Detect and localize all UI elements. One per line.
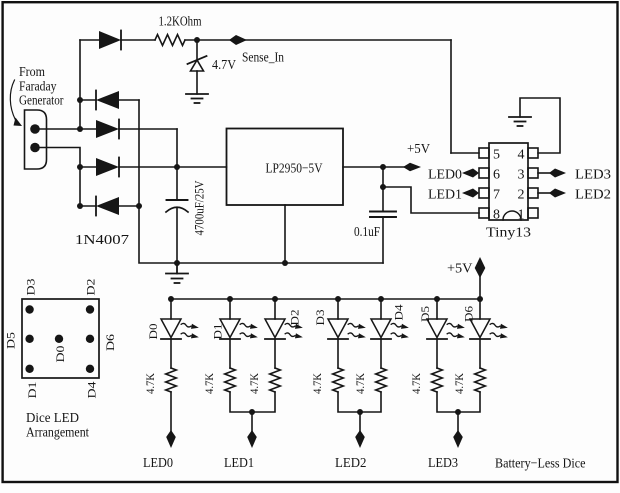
svg-text:5: 5 <box>493 148 500 163</box>
svg-text:D4: D4 <box>392 305 406 321</box>
svg-text:LP2950−5V: LP2950−5V <box>266 162 323 177</box>
diode D_D 1N4007 (row D, pointing left) <box>80 197 139 216</box>
svg-text:LED3: LED3 <box>575 168 611 183</box>
wire : row B cathode drop to input node <box>176 129 178 167</box>
LED dot mid-left (D5) <box>25 335 33 343</box>
resistor R_D1 4.7K <box>225 368 236 392</box>
LED D1 <box>220 319 258 340</box>
svg-text:D1: D1 <box>25 382 39 399</box>
svg-text:4.7K: 4.7K <box>204 372 216 394</box>
svg-text:D1: D1 <box>211 324 225 340</box>
svg-text:8: 8 <box>493 208 500 223</box>
wire : LED1 pair join <box>230 392 275 412</box>
svg-text:4700uF/25V: 4700uF/25V <box>192 180 207 236</box>
wire : LED2 pair join <box>338 392 381 412</box>
svg-text:D0: D0 <box>146 324 160 340</box>
svg-text:2: 2 <box>518 188 525 203</box>
arrow : curved pointer to connector <box>10 80 22 126</box>
LED dot bottom-left (D1) <box>25 365 33 373</box>
svg-text:+5V: +5V <box>407 142 430 157</box>
diode D_A 1N4007 (row A, pointing left) <box>80 91 139 110</box>
wire : connector pin1 to bridge node (row B) <box>38 128 96 130</box>
wire : D5 cathode to resistor <box>436 339 438 368</box>
svg-text:4.7K: 4.7K <box>411 372 423 394</box>
node : input junction <box>174 164 180 170</box>
LED dot mid-right (D6) <box>86 335 94 343</box>
LED D6 <box>470 319 508 340</box>
svg-text:LED1: LED1 <box>428 188 462 203</box>
LED D5 <box>427 319 465 340</box>
svg-text:LED2: LED2 <box>335 456 367 471</box>
wire : AC node1 rail x=80 from top diode row down to row B <box>79 40 81 129</box>
wire : D6 cathode to resistor <box>479 339 481 368</box>
wire : D0 cathode to resistor <box>170 339 172 368</box>
wire : D1 cathode to resistor <box>229 339 231 368</box>
svg-text:1.2KOhm: 1.2KOhm <box>159 15 202 30</box>
power +5V arrow (top) <box>403 163 421 172</box>
signal arrow LED3 (bottom) <box>453 430 463 448</box>
resistor R1 1.2KOhm <box>155 35 185 46</box>
resistor R_D4 4.7K <box>376 368 387 392</box>
ground : main ground below rail <box>166 263 188 283</box>
wire : D5 anode from rail <box>436 299 438 319</box>
svg-text:4.7K: 4.7K <box>312 372 324 394</box>
capacitor C2 0.1uF <box>370 212 396 218</box>
svg-text:4.7K: 4.7K <box>145 372 157 394</box>
node : Sense junction <box>194 37 200 43</box>
svg-text:Battery−Less Dice: Battery−Less Dice <box>495 457 586 472</box>
svg-text:Generator: Generator <box>19 94 64 109</box>
node junction on right rail at row D <box>136 203 142 209</box>
resistor R_D5 4.7K <box>432 368 443 392</box>
signal arrow Sense_In <box>229 35 247 45</box>
wire : LED3 pair join <box>437 392 480 412</box>
LED D3 <box>328 319 366 340</box>
wire : input wire row C to regulator <box>119 166 227 168</box>
signal arrow LED1 (bottom) <box>247 430 257 448</box>
signal arrow LED2 (pin 2) <box>549 189 566 198</box>
power +5V arrow (LED array supply) <box>475 257 486 278</box>
dice LED arrangement box <box>22 299 99 378</box>
resistor R_D6 4.7K <box>475 368 486 392</box>
svg-text:D5: D5 <box>418 306 432 322</box>
wire : pin3 to LED3 arrow <box>538 172 551 174</box>
svg-text:4.7K: 4.7K <box>355 372 367 394</box>
svg-text:D0: D0 <box>53 346 67 363</box>
wire : LED0 column down <box>170 392 172 431</box>
wire : +5V down to C2 / pin8 branch <box>382 167 384 212</box>
wire : regulator output to +5V node <box>343 166 405 168</box>
node : junction to pin8 <box>380 184 386 190</box>
svg-text:Faraday: Faraday <box>19 80 57 95</box>
svg-text:3: 3 <box>518 168 525 183</box>
connector J1 From Faraday Generator <box>25 110 47 169</box>
svg-text:D6: D6 <box>462 306 476 322</box>
svg-text:LED2: LED2 <box>575 188 611 203</box>
wire : +5V to LED rail <box>479 276 481 299</box>
wire : diode cathode to resistor <box>121 39 155 41</box>
svg-text:D3: D3 <box>313 310 327 326</box>
ground : under zener <box>186 94 208 103</box>
wire : +5V branch to Tiny13 pin 8 <box>383 187 479 213</box>
svg-text:D6: D6 <box>103 334 117 351</box>
LED dot top-right (D2) <box>86 305 94 313</box>
signal arrow LED2 (bottom) <box>355 430 365 448</box>
wire : D2 anode from rail <box>274 299 276 319</box>
wire : regulator ground pin to rail <box>284 205 286 263</box>
wire : D0 anode from rail <box>170 299 172 319</box>
wire : pin2 to LED2 arrow <box>538 192 551 194</box>
svg-text:D4: D4 <box>84 382 98 399</box>
wire : D3 cathode to resistor <box>337 339 339 368</box>
svg-text:4.7K: 4.7K <box>454 372 466 394</box>
wire : right rail (bridge negative) down to ground rail <box>139 100 383 263</box>
resistor R_D3 4.7K <box>333 368 344 392</box>
svg-text:Sense_In: Sense_In <box>242 51 284 66</box>
IC U1 Tiny13 <box>479 143 538 220</box>
signal arrow LED0 (pin 6) <box>462 169 479 178</box>
label From Faraday Generator <box>19 65 64 109</box>
svg-text:D2: D2 <box>288 310 302 326</box>
wire : D1 anode from rail <box>229 299 231 319</box>
svg-text:0.1uF: 0.1uF <box>354 225 380 240</box>
svg-text:D5: D5 <box>3 332 17 349</box>
svg-text:LED0: LED0 <box>428 168 462 183</box>
signal arrow LED3 (pin 3) <box>549 169 566 178</box>
diode D_B 1N4007 (row B, pointing right) <box>96 120 177 139</box>
LED D4 <box>371 319 409 340</box>
svg-text:Tiny13: Tiny13 <box>486 226 531 241</box>
node junctions on LED rail <box>168 296 483 302</box>
LED D0 <box>161 319 199 340</box>
wire : D4 anode from rail <box>380 299 382 319</box>
node : +5V output junction <box>380 164 386 170</box>
svg-text:From: From <box>19 65 45 80</box>
svg-text:LED0: LED0 <box>143 456 173 471</box>
zener diode Z1 4.7V <box>188 40 207 94</box>
svg-text:7: 7 <box>493 188 500 203</box>
wire : top diode row feed from rail to diode anode <box>80 39 99 41</box>
wire : connector pin2 to lower bridge rail <box>38 148 80 207</box>
svg-text:1: 1 <box>518 208 525 223</box>
svg-text:D2: D2 <box>84 279 98 296</box>
node junction dots on left rails <box>77 97 83 103</box>
wire : pin4 to ground loop <box>520 98 560 153</box>
node : junction on ground rail under C1 <box>174 260 180 266</box>
wire : D6 anode from rail <box>479 299 481 319</box>
svg-text:LED1: LED1 <box>224 456 254 471</box>
svg-text:4.7K: 4.7K <box>249 372 261 394</box>
resistor R_D0 4.7K <box>166 368 177 392</box>
svg-text:6: 6 <box>493 168 500 183</box>
wire : resistor to Sense node and on to Tiny13 pin5 <box>185 39 451 41</box>
LED dot center (D0) <box>55 335 63 343</box>
node : junction regulator gnd <box>282 260 288 266</box>
svg-text:Arrangement: Arrangement <box>26 426 89 441</box>
diode D sense (1N4007) top <box>99 31 121 50</box>
regulator U2 LP2950-5V <box>227 129 344 206</box>
svg-text:+5V: +5V <box>447 262 473 277</box>
wire : D2 cathode to resistor <box>274 339 276 368</box>
LED D2 <box>265 319 303 340</box>
wire : LED array top rail <box>171 298 480 300</box>
diode D_C 1N4007 (row C, pointing right) <box>80 158 119 177</box>
svg-text:D3: D3 <box>24 279 38 296</box>
svg-text:4: 4 <box>518 148 525 163</box>
wire : D3 anode from rail <box>337 299 339 319</box>
svg-text:4.7V: 4.7V <box>212 58 236 73</box>
signal arrow LED0 (bottom) <box>166 430 176 448</box>
LED dot bottom-right (D4) <box>86 365 94 373</box>
ground : Tiny13 pin4 ground <box>509 117 531 126</box>
resistor R_D2 4.7K <box>270 368 281 392</box>
wire : D4 cathode to resistor <box>380 339 382 368</box>
LED dot top-left (D3) <box>25 305 33 313</box>
svg-text:Dice LED: Dice LED <box>26 411 79 426</box>
signal arrow LED1 (pin 7) <box>462 189 479 198</box>
capacitor C1 4700uF/25V <box>166 167 188 263</box>
svg-text:1N4007: 1N4007 <box>75 233 129 248</box>
svg-text:LED3: LED3 <box>428 456 458 471</box>
